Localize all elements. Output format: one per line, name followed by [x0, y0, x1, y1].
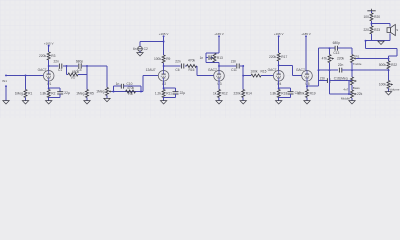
svg-text:R7: R7 [71, 76, 75, 80]
wire R12 bottom [218, 98, 220, 101]
svg-text:220k: 220k [39, 54, 46, 58]
potentiometer P1 1Meg volume1 [96, 88, 111, 96]
node bass wiper mid [348, 93, 350, 95]
svg-text:1n: 1n [116, 82, 120, 86]
capacitor C5 22u bypass U2 [173, 91, 186, 95]
label 12AU7 U2 [146, 68, 156, 72]
node plate U4 [278, 64, 280, 66]
svg-text:C2: C2 [144, 47, 148, 51]
svg-text:680p: 680p [76, 59, 83, 63]
wire R14 bottom [242, 98, 244, 101]
wire mid cap down [329, 70, 331, 94]
svg-text:R12: R12 [222, 92, 228, 96]
resistor R20 100 [363, 13, 380, 21]
wire node C down [242, 66, 244, 90]
svg-text:220k: 220k [269, 55, 276, 59]
node mid row rail tap [318, 69, 320, 71]
wire to U3 grid [197, 75, 214, 77]
wire bass wiper [348, 81, 350, 94]
potentiometer P2 47k slope [322, 55, 334, 63]
wire bright branch up [113, 86, 115, 91]
svg-text:Volume: Volume [389, 88, 400, 92]
node C grid tap [242, 75, 244, 77]
label Bass [353, 86, 360, 90]
svg-text:1Meg: 1Meg [76, 92, 84, 96]
wire cap stub left [206, 57, 208, 59]
wire ladder top row right [338, 47, 353, 49]
wire to C16 [319, 80, 328, 82]
ground below middle pot [349, 101, 355, 104]
wire V+ stage4 down [278, 36, 280, 53]
svg-text:R18: R18 [281, 92, 287, 96]
capacitor C11 22n [237, 64, 239, 69]
wire bypass top U1 [49, 87, 61, 89]
svg-text:1Meg: 1Meg [339, 76, 347, 80]
node IN port pin [5, 74, 7, 76]
resistor R3 220k [39, 52, 56, 60]
svg-text:820k: 820k [297, 92, 304, 96]
ground below C2 [137, 53, 143, 56]
svg-text:R19: R19 [310, 92, 316, 96]
wire R17 to plate U4 [278, 61, 280, 71]
ground below R19 [304, 101, 310, 104]
wire bypass right upper U1 [59, 88, 61, 91]
svg-text:470k: 470k [188, 58, 195, 62]
resistor R14 220k [234, 90, 252, 98]
svg-text:R22: R22 [391, 63, 397, 67]
resistor R12 1k [213, 90, 228, 98]
wire bypass right lower U2 [175, 94, 177, 98]
svg-text:GAC7: GAC7 [268, 68, 277, 72]
svg-text:4n7: 4n7 [343, 87, 348, 91]
svg-text:1Meg: 1Meg [96, 90, 104, 94]
svg-text:22µ: 22µ [180, 91, 186, 95]
wire plate U3 to C11 [219, 65, 236, 67]
wire bypass right upper U4 [290, 88, 292, 91]
wire node A to C4 [67, 65, 78, 67]
wire RC box left edge [205, 53, 207, 63]
capacitor C6 22n [181, 64, 183, 69]
wire plate U4 right [279, 64, 293, 66]
ground at input jack [3, 101, 9, 104]
wire ground row [366, 40, 391, 42]
label Middle [341, 96, 350, 100]
ground below R14 [240, 101, 246, 104]
svg-text:470k: 470k [127, 86, 134, 90]
node A parallel RC left [66, 65, 68, 67]
svg-text:1Meg: 1Meg [15, 92, 23, 96]
svg-text:100k: 100k [250, 69, 257, 73]
wire treble wiper out [356, 58, 389, 60]
wire bright branch top left [114, 85, 122, 87]
wire node A down [66, 66, 68, 75]
svg-text:GAC7: GAC7 [208, 68, 217, 72]
ground below volume pot [385, 92, 391, 95]
svg-text:1k: 1k [213, 92, 217, 96]
capacitor C13 680p treble [333, 41, 340, 55]
wire node B to R5 [86, 66, 88, 90]
node nfb join [388, 69, 390, 71]
ground below R11 [160, 101, 166, 104]
label Treble [353, 62, 362, 66]
wire bypass right lower U4 [290, 94, 292, 98]
svg-text:S: S [396, 28, 398, 32]
svg-text:100k: 100k [210, 56, 216, 60]
wire CF out riser [318, 48, 320, 86]
wire C2 to ground [139, 51, 141, 53]
svg-text:GAC7: GAC7 [296, 68, 305, 72]
wire V+ stage5 to plate U5 [305, 36, 307, 71]
svg-text:22µ: 22µ [64, 91, 70, 95]
wire plate U1 to C1 [49, 65, 59, 67]
wire V+ to R3 [48, 45, 50, 52]
wire plate U3 up [218, 63, 220, 71]
svg-text:U3: U3 [217, 82, 221, 86]
node input/R1 junction [25, 74, 27, 76]
wire bar to R20 [371, 11, 373, 13]
potentiometer P3 220k treble [351, 55, 357, 63]
wire volume pot top [388, 70, 390, 80]
svg-text:R23: R23 [374, 28, 380, 32]
svg-text:R17: R17 [281, 55, 287, 59]
svg-text:R8: R8 [128, 92, 132, 96]
label 22n C6 [175, 59, 181, 72]
svg-text:C1: C1 [58, 68, 62, 72]
label C18 mid [343, 87, 348, 91]
resistor R5 1Meg [76, 90, 94, 98]
svg-text:C11: C11 [231, 68, 237, 72]
ground below R2 [46, 101, 52, 104]
svg-text:C13: C13 [333, 51, 339, 55]
wire nfb top seg [388, 56, 390, 61]
ground below pot P1 [104, 98, 110, 101]
power flag +165V stage2 [159, 32, 169, 37]
svg-text:R11: R11 [166, 92, 172, 96]
resistor R13 100k plate [210, 53, 223, 62]
resistor R23 220 [363, 26, 380, 34]
wire C6 to R16 [185, 65, 187, 67]
wire R23 to ground row [371, 34, 373, 41]
wire R15 to U4 grid [261, 75, 273, 77]
triode U5 GAC7 [296, 68, 312, 86]
power flag +165V stage3 [214, 32, 224, 37]
svg-text:Middle: Middle [341, 96, 350, 100]
label 1Meg bass [339, 76, 347, 80]
node rail stage2 [163, 41, 165, 43]
wire U4 cathode down [278, 81, 280, 89]
wire R3 to plate U1 [48, 60, 50, 71]
wire bright branch top right [124, 85, 141, 87]
node B parallel RC right [86, 65, 88, 67]
wire speaker bottom lead [389, 33, 391, 40]
svg-text:22n: 22n [53, 59, 59, 63]
wire nfb from corner [389, 55, 398, 57]
wire bypass right lower U1 [59, 94, 61, 98]
wire to U5 grid [292, 75, 301, 77]
triode U2 12AU7 [158, 71, 169, 87]
wire volume pot bottom [388, 89, 390, 92]
svg-text:22n: 22n [175, 59, 181, 63]
svg-text:R3: R3 [51, 54, 55, 58]
wire middle pot bottom [351, 98, 353, 101]
wire to R7 [67, 74, 69, 76]
wire to U2 grid riser [142, 76, 144, 92]
svg-text:100k: 100k [154, 57, 161, 61]
svg-text:220k: 220k [234, 92, 241, 96]
wire plate U2 to C6 [164, 65, 181, 67]
node cathode U1 [48, 87, 50, 89]
node wiper split right [140, 91, 142, 93]
capacitor C8 1n snubber [200, 55, 212, 60]
resistor R18 1.8k [270, 90, 288, 98]
triode U3 GAC7 [208, 68, 224, 86]
wire R1 top [25, 75, 27, 89]
capacitor C17 22n bass-mid [338, 63, 344, 72]
svg-text:22n: 22n [338, 63, 344, 67]
resistor R17 220k [269, 53, 287, 61]
wire R20 to node D [371, 21, 373, 26]
wire CF out right [307, 85, 319, 87]
ground below R5 [84, 101, 90, 104]
wire bypass bottom U2 [164, 97, 176, 99]
svg-text:R5: R5 [90, 92, 94, 96]
svg-text:100k: 100k [379, 83, 386, 87]
triode U1 GAC7 [38, 68, 54, 86]
resistor R9 100k [154, 55, 171, 63]
speaker LS1 [387, 25, 398, 36]
wire mid row right [342, 69, 352, 71]
resistor R15 100k grid stopper [250, 69, 266, 77]
node plate U3 [218, 65, 220, 67]
svg-text:C6: C6 [175, 68, 179, 72]
svg-text:22n: 22n [320, 77, 326, 81]
resistor R19 820 [297, 90, 315, 98]
label 220k treble pot [337, 57, 344, 61]
svg-text:R15: R15 [261, 69, 267, 73]
wire top rail to C2 [140, 41, 164, 43]
wire U5 cathode down [306, 81, 308, 89]
wire C11 to node C [240, 65, 243, 67]
wire bright branch down [140, 86, 142, 91]
power flag +165V stage4 [274, 32, 284, 37]
svg-text:GAC7: GAC7 [38, 68, 47, 72]
node mid row left [329, 69, 331, 71]
wire node C to R15 [243, 75, 251, 77]
wire R18 bottom [278, 98, 280, 101]
svg-text:680k: 680k [72, 70, 79, 74]
wire ladder top row left [319, 47, 336, 49]
wire U1 cathode down [48, 81, 50, 89]
resistor R8 470k horizontal [126, 86, 136, 96]
node J1 shield pin [5, 85, 7, 87]
label TR1 treble pot [354, 54, 360, 58]
label 22n C11 [231, 59, 237, 72]
svg-text:6n: 6n [133, 47, 137, 51]
ground below R1 [22, 101, 28, 104]
svg-text:R9: R9 [166, 57, 170, 61]
wire V+ stage2 down [163, 36, 165, 55]
wire node D to speaker [372, 23, 391, 25]
capacitor C15 22u bypass U4 [288, 91, 301, 95]
ground below R18 [276, 101, 282, 104]
wire down to U5 grid [291, 65, 293, 75]
potentiometer P5 22k middle [351, 90, 363, 98]
triode U4 GAC7 [268, 68, 284, 86]
svg-text:1n: 1n [200, 56, 204, 60]
svg-text:R2: R2 [51, 92, 55, 96]
svg-text:12AU7: 12AU7 [146, 68, 156, 72]
wire C1 to node A [63, 65, 67, 67]
wire R7 to node B leg [78, 74, 87, 76]
wire RC box bottom [206, 62, 219, 64]
wire P1 wiper run [111, 91, 143, 93]
node nfb tap [365, 40, 367, 42]
svg-text:100: 100 [363, 15, 369, 19]
wire C4 to node B [82, 65, 87, 67]
svg-text:22k: 22k [357, 92, 363, 96]
wire nfb res bottom [388, 69, 390, 70]
wire mid row [319, 69, 339, 71]
capacitor C3 22u bypass U1 [57, 91, 70, 95]
wire R16 to corner [196, 65, 198, 67]
svg-text:R14: R14 [246, 92, 252, 96]
wire nfb horizontal [366, 48, 398, 50]
wire bass to middle pot [351, 85, 353, 90]
wire R1 bottom [25, 98, 27, 101]
power flag +185V stage5 [301, 32, 311, 37]
svg-text:IN1: IN1 [2, 79, 7, 83]
wire treble pot top [351, 48, 353, 54]
power flag +165V stage1 [44, 41, 54, 46]
resistor R16 470k horizontal [187, 58, 197, 72]
wire mid bottom row [330, 93, 353, 95]
node cathode U5 out [306, 85, 308, 87]
wire stack out row [352, 69, 389, 71]
wire U2 cathode down [163, 81, 165, 89]
wire nfb right riser [396, 49, 398, 57]
wire R9 to plate U2 [163, 63, 165, 71]
wire V+ stage3 down [218, 36, 220, 53]
wire cap stub right [211, 57, 213, 59]
wire bypass bottom U4 [279, 97, 291, 99]
svg-text:22n: 22n [231, 59, 237, 63]
ground speaker return [378, 41, 384, 44]
svg-text:Treble: Treble [353, 62, 362, 66]
power bar flag output [367, 9, 375, 11]
resistor R1 1Meg [15, 90, 33, 98]
svg-text:1.8k: 1.8k [40, 92, 47, 96]
wire input signal run [6, 74, 43, 76]
svg-text:R16: R16 [189, 68, 195, 72]
node top row slope tap [329, 47, 331, 49]
wire treble pot bottom [351, 63, 353, 77]
resistor R2 1.8k [40, 90, 56, 98]
wire riser to U2 grid [143, 75, 158, 77]
svg-text:U2: U2 [162, 82, 166, 86]
wire U3 cathode down [218, 81, 220, 89]
wire node B leg up [86, 66, 88, 75]
label Volume [389, 88, 400, 92]
resistor R22 500k nfb [379, 61, 397, 69]
potentiometer P4 1Meg bass [351, 77, 357, 85]
svg-text:R13: R13 [217, 56, 223, 60]
node treble wiper join [388, 58, 390, 60]
wire pot P1 bottom [106, 96, 108, 99]
wire bypass right upper U2 [175, 88, 177, 91]
node D speaker feed [371, 23, 373, 25]
node C coupling out [242, 65, 244, 67]
wire J1 shield to ground [5, 86, 7, 100]
wire C2 down [139, 42, 141, 47]
wire bypass top U2 [164, 87, 176, 89]
wire slope bottom [329, 63, 331, 71]
svg-text:47k: 47k [322, 57, 328, 61]
node plate U1 [48, 65, 50, 67]
label 22n C1 [53, 59, 59, 63]
svg-text:U5: U5 [305, 82, 309, 86]
svg-text:220k: 220k [337, 57, 344, 61]
label J1 input [2, 79, 7, 83]
node wiper split left [113, 91, 115, 93]
capacitor C10 1n bright [116, 82, 133, 89]
svg-text:U1: U1 [47, 82, 51, 86]
wire R2 bottom [48, 98, 50, 101]
wire down to pot P1 [106, 66, 108, 88]
wire C16 to bass pot [330, 80, 352, 82]
resistor R7 680k horizontal [68, 70, 79, 80]
node treble bottom mid row [351, 69, 353, 71]
svg-text:220: 220 [363, 28, 369, 32]
wire slope down [329, 48, 331, 54]
wire nfb tap riser [365, 41, 367, 49]
node cathode U4 [278, 87, 280, 89]
capacitor C16 22n [320, 77, 340, 83]
wire R11 bottom [163, 98, 165, 101]
svg-text:R1: R1 [28, 92, 32, 96]
svg-text:1.2k: 1.2k [155, 92, 162, 96]
wire R19 bottom [306, 98, 308, 101]
svg-text:680p: 680p [333, 41, 340, 45]
wire speaker top lead [389, 24, 391, 27]
svg-text:1.8k: 1.8k [270, 92, 277, 96]
node cathode U2 [163, 87, 165, 89]
svg-text:Bass: Bass [353, 86, 360, 90]
node plate U2 [163, 65, 165, 67]
capacitor C2 filter [133, 47, 148, 52]
svg-text:R20: R20 [374, 15, 380, 19]
potentiometer P6 100k volume [379, 81, 393, 89]
svg-text:U4: U4 [277, 82, 281, 86]
wire node B to pot P1 [87, 65, 107, 67]
wire R5 bottom [86, 98, 88, 101]
ground below R12 [216, 101, 222, 104]
capacitor C1 22n [58, 64, 62, 73]
wire bypass top U4 [279, 87, 291, 89]
resistor R11 1.2k [155, 90, 172, 98]
wire RC box top [206, 52, 219, 54]
svg-text:TR1: TR1 [354, 54, 360, 58]
svg-text:500k: 500k [379, 63, 386, 67]
wire bypass bottom U1 [49, 97, 61, 99]
capacitor C4 680p [76, 59, 83, 72]
wire corner down to U3 grid [196, 66, 198, 76]
